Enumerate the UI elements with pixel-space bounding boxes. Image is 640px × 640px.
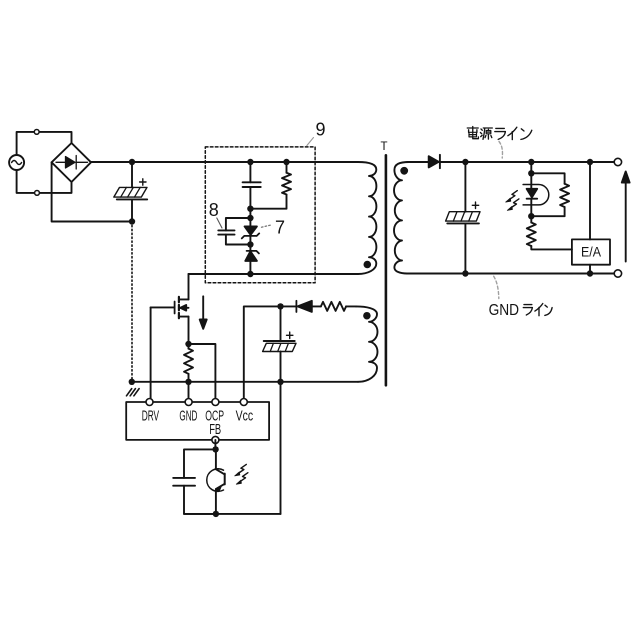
- resistor current sense: [184, 344, 193, 382]
- pin OCP: [212, 399, 219, 406]
- node secondary cap top: [462, 159, 468, 165]
- wire resistor to aux winding: [346, 305, 356, 307]
- node LED cathode junction: [528, 213, 534, 219]
- transistor photocoupler receiver: [207, 449, 225, 514]
- terminal input top: [34, 130, 39, 135]
- pin DRV: [146, 399, 153, 406]
- transformer auxiliary winding: [356, 306, 378, 381]
- svg-text:7: 7: [275, 218, 285, 238]
- node cap8 bottom: [247, 241, 253, 247]
- transistor Q1 MOSFET: [151, 274, 189, 344]
- wire top rail primary: [91, 161, 358, 163]
- node MOSFET source: [185, 341, 191, 347]
- node bridge positive: [129, 159, 135, 165]
- node Vcc junction: [277, 303, 283, 309]
- op-amp block E/A: [572, 239, 610, 264]
- svg-text:GND: GND: [179, 408, 197, 424]
- capacitor C2 output electrolytic: [446, 162, 480, 274]
- wire feedback riser: [280, 382, 282, 514]
- wire bridge negative output: [52, 162, 132, 221]
- leader line for 9: [307, 138, 314, 146]
- node E/A bottom: [587, 270, 593, 276]
- svg-text:T: T: [380, 141, 387, 153]
- pin FB: [212, 436, 219, 443]
- wire photocoupler bottom: [184, 513, 281, 515]
- wire DRV riser: [150, 307, 152, 402]
- wire LED branch: [530, 162, 532, 173]
- label power line (dengen line): [467, 127, 532, 140]
- node ground left: [129, 379, 135, 385]
- AC source V1: [9, 155, 24, 170]
- leader dotted for 7: [262, 225, 273, 227]
- capacitor C1 input electrolytic: [114, 162, 147, 222]
- secondary polarity dot: [400, 167, 408, 175]
- node snubber bottom: [247, 271, 253, 277]
- bridge rectifier DB1: [52, 143, 91, 182]
- capacitor FB filter: [173, 478, 215, 514]
- auxiliary polarity dot: [363, 312, 371, 320]
- node snubber resistor top: [283, 159, 289, 165]
- svg-text:GND: GND: [489, 302, 519, 319]
- dashed box 9 snubber: [205, 147, 315, 283]
- wire dotted negative bus: [131, 222, 133, 382]
- node LED anode junction: [528, 170, 534, 176]
- leader line for 8: [217, 218, 222, 228]
- pin GND: [185, 399, 192, 406]
- output voltage arrow: [622, 172, 630, 262]
- drain current arrow: [200, 296, 207, 329]
- wire ground rail: [132, 381, 358, 383]
- label GND line: [489, 302, 552, 319]
- diode secondary rectifier: [429, 155, 440, 168]
- wire E/A output: [589, 265, 591, 274]
- wire snubber bottom rail: [189, 273, 359, 275]
- node sense resistor bottom: [185, 379, 191, 385]
- capacitor 8: [218, 218, 250, 245]
- wire OCP sense: [189, 344, 216, 402]
- diode Vcc supply: [281, 301, 321, 312]
- zener diode 7: [242, 218, 259, 245]
- svg-text:DRV: DRV: [142, 408, 160, 424]
- node secondary cap bottom: [462, 270, 468, 276]
- transformer T primary winding: [358, 162, 376, 274]
- wire FB to cap: [184, 449, 216, 478]
- node snubber mid: [247, 206, 253, 212]
- wire bottom rail secondary (GND line): [407, 273, 618, 275]
- terminal output minus: [614, 270, 621, 277]
- node E/A top: [587, 159, 593, 165]
- wire top rail secondary (power line): [407, 161, 618, 163]
- wire AC bottom lead: [17, 170, 72, 193]
- control IC U1: [126, 402, 269, 440]
- phototransistor light arrows: [235, 464, 248, 484]
- node Vcc cap ground: [277, 379, 283, 385]
- node LED branch top: [528, 159, 534, 165]
- wire GND pin riser: [188, 382, 190, 402]
- node snubber cap top: [247, 159, 253, 165]
- LED light emission arrows: [506, 191, 519, 211]
- terminal output plus: [614, 158, 621, 165]
- node C1 bottom: [129, 218, 135, 224]
- primary polarity dot: [364, 261, 372, 269]
- svg-text:8: 8: [209, 200, 219, 220]
- transformer secondary winding: [394, 162, 409, 274]
- leader for GND line label: [494, 276, 499, 298]
- resistor snubber: [250, 162, 291, 209]
- diode inside bridge: [56, 156, 88, 170]
- resistor lower sense divider: [527, 216, 572, 249]
- wire Vcc riser: [244, 306, 281, 402]
- capacitor snubber: [243, 162, 261, 209]
- photocoupler LED: [523, 173, 549, 216]
- pin Vcc: [240, 399, 247, 406]
- leader for power line label: [499, 142, 502, 159]
- svg-text:9: 9: [315, 120, 325, 140]
- diode snubber lower: [245, 245, 259, 275]
- wire FB lead: [214, 440, 216, 450]
- wire snubber mid: [249, 209, 251, 218]
- node FB junction: [212, 446, 218, 452]
- wire E/A supply: [589, 162, 591, 239]
- resistor parallel to LED: [531, 173, 569, 216]
- svg-text:E/A: E/A: [581, 245, 601, 260]
- transformer core: [385, 155, 388, 385]
- node cap8 top: [247, 215, 253, 221]
- terminal input bottom: [35, 191, 40, 196]
- wire AC top lead: [17, 132, 72, 155]
- capacitor C3 Vcc electrolytic: [263, 306, 296, 381]
- node emitter junction: [213, 511, 219, 517]
- svg-text:Vcc: Vcc: [236, 408, 254, 424]
- svg-text:FB: FB: [209, 422, 221, 438]
- ground: [127, 389, 140, 396]
- resistor Vcc supply: [321, 302, 346, 311]
